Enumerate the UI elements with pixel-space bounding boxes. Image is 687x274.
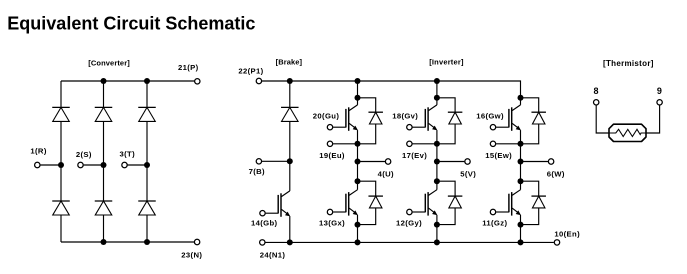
svg-text:15(Ew): 15(Ew) [485,151,512,160]
svg-text:24(N1): 24(N1) [260,251,286,260]
diode D6 (lower arm, phase T) [138,201,156,215]
wire gate lead 12(Gy) [413,211,426,213]
wire terminal stub 3(T) [128,164,147,166]
terminal 12(Gy) circle [407,209,412,214]
junction lower collector node leg V [434,178,440,184]
label [Brake] [276,58,303,67]
wire emitter leg V upper [436,130,438,144]
junction lower collector node leg W [518,178,524,184]
wire gate lead 20(Gu) [333,126,346,128]
wire freewheel diode branch bottom leg U [358,181,376,224]
junction node B [287,158,293,164]
wire phase node drop leg W [520,144,522,181]
svg-text:14(Gb): 14(Gb) [251,218,278,227]
svg-text:1(R): 1(R) [30,147,46,156]
transistor Q20 IGBT (upper U) [346,105,358,131]
wire gate lead 11(Gz) [496,211,509,213]
diode D2 (upper arm, phase S) [95,107,113,121]
wire converter leg 2 [103,81,105,242]
label [Inverter] [429,58,464,67]
svg-text:[Brake]: [Brake] [276,58,303,67]
diode DW1 (freewheel, upper W) [531,112,546,124]
junction input node S [101,162,107,168]
label [Thermistor] [603,59,654,68]
svg-text:[Thermistor]: [Thermistor] [603,59,654,68]
wire output stub 6(W) [521,161,549,163]
label 15(Ew) [485,151,512,160]
svg-text:9: 9 [657,86,662,96]
wire freewheel diode branch bottom leg V [437,181,455,224]
label 23(N) [181,250,202,259]
junction output node U [355,159,361,165]
label 21(P) [178,63,199,72]
svg-text:13(Gx): 13(Gx) [319,219,345,228]
transistor Q11 IGBT (lower W) [509,190,521,216]
terminal 18(Gv) circle [407,125,412,130]
junction emitter node leg W [518,141,524,147]
transistor Q7 IGBT (brake chopper) [278,191,290,217]
wire freewheel diode branch top leg V [437,98,455,144]
wire converter leg 1 [60,81,62,242]
label 14(Gb) [251,218,278,227]
junction emitter node leg U [355,141,361,147]
wire collector leg W upper [520,98,522,105]
diode D4 (lower arm, phase R) [52,201,70,215]
label [Converter] [88,58,130,67]
svg-text:[Inverter]: [Inverter] [429,58,464,67]
wire brake upper branch [289,81,291,161]
wire output stub 5(V) [437,161,465,163]
junction converter top rail leg3 [144,78,150,84]
terminal 21(P) circle [195,79,200,84]
diode DV1 (freewheel, upper V) [448,112,463,124]
transistor Q16 IGBT (upper W) [509,105,521,131]
transistor Q18 IGBT (upper V) [425,105,437,131]
terminal 17(Ev) circle [407,141,412,146]
svg-text:4(U): 4(U) [378,169,394,178]
wire collector leg V upper [436,98,438,105]
wire aux emitter stub 15(Ew) [496,143,520,145]
label 17(Ev) [402,151,427,160]
transistor Q13 IGBT (lower U) [346,190,358,216]
junction output node W [518,159,524,165]
wire output stub 4(U) [358,161,386,163]
wire rail drop leg V [436,81,438,98]
diode DV2 (freewheel, lower V) [448,196,463,208]
wire gate lead 16(Gw) [496,126,509,128]
svg-text:2(S): 2(S) [76,150,92,159]
junction lower emitter node leg V [434,222,440,228]
wire aux emitter stub 17(Ev) [413,143,437,145]
wire freewheel diode branch top leg W [521,98,539,144]
junction input node T [144,162,150,168]
svg-text:21(P): 21(P) [178,63,199,72]
terminal 23(N) circle [194,239,199,244]
label 13(Gx) [319,219,345,228]
wire collector leg W lower [520,181,522,190]
terminal 11(Gz) circle [490,209,495,214]
wire freewheel diode branch top leg U [358,98,376,144]
wire brake collector [289,161,291,191]
svg-text:6(W): 6(W) [547,169,565,178]
terminal 3(T) circle [122,162,127,167]
diode DU2 (freewheel, lower U) [368,196,383,208]
terminal 4(U) circle [385,159,390,164]
svg-text:Equivalent Circuit Schematic: Equivalent Circuit Schematic [7,14,255,34]
wire collector leg U lower [357,181,359,190]
svg-text:12(Gy): 12(Gy) [396,219,422,228]
svg-text:23(N): 23(N) [181,250,202,259]
wire thermistor lead 9 [646,105,660,133]
label 9 [657,86,662,96]
junction brake emitter node [287,239,293,245]
diode D5 (lower arm, phase S) [95,201,113,215]
terminal 8 circle [594,100,599,105]
junction top rail leg U [355,78,361,84]
wire collector leg V lower [436,181,438,190]
label 22(P1) [238,67,263,76]
wire converter top rail [61,80,194,82]
wire leg W to N rail [520,225,522,243]
label 16(Gw) [476,111,504,120]
diode D7 (brake) [281,107,299,121]
svg-text:11(Gz): 11(Gz) [482,219,507,228]
wire aux emitter stub 19(Eu) [333,143,357,145]
wire thermistor lead 8 [596,105,609,133]
junction converter top rail leg2 [101,78,107,84]
terminal 2(S) circle [78,162,83,167]
label 10(En) [554,230,580,239]
wire converter bottom rail [61,241,194,243]
wire leg V to N rail [436,225,438,243]
svg-text:8: 8 [594,86,599,96]
junction converter bottom rail leg2 [101,239,107,245]
wire emitter leg U lower [357,215,359,225]
svg-text:10(En): 10(En) [554,230,580,239]
terminal 14(Gb) circle [260,211,265,216]
wire emitter leg W upper [520,130,522,144]
wire emitter leg W lower [520,215,522,225]
label 19(Eu) [319,151,345,160]
junction collector node leg U [355,95,361,101]
label 4(U) [378,169,394,178]
wire converter leg 3 [146,81,148,242]
svg-text:20(Gu): 20(Gu) [313,111,340,120]
wire phase node drop leg V [436,144,438,181]
wire collector leg U upper [357,98,359,105]
label 3(T) [120,150,136,159]
wire brake gate lead [266,212,279,214]
thermistor RT body box (beveled) [609,124,646,141]
label 11(Gz) [482,219,507,228]
diode DU1 (freewheel, upper U) [368,112,383,124]
wire freewheel diode branch bottom leg W [521,181,539,224]
wire 7(B) stub [262,160,290,162]
label 24(N1) [260,251,286,260]
wire inverter bottom rail [265,241,554,243]
junction bottom rail leg U [355,239,361,245]
label 12(Gy) [396,219,422,228]
wire gate lead 13(Gx) [333,211,346,213]
diode D3 (upper arm, phase T) [138,107,156,121]
junction output node V [434,159,440,165]
terminal 19(Eu) circle [327,141,332,146]
terminal 13(Gx) circle [327,209,332,214]
label 1(R) [30,147,46,156]
terminal 20(Gu) circle [327,125,332,130]
wire brake emitter [289,216,291,242]
label 8 [594,86,599,96]
wire emitter leg V lower [436,215,438,225]
terminal 7(B) circle [256,159,261,164]
junction brake top node [287,78,293,84]
junction lower emitter node leg U [355,222,361,228]
wire emitter leg U upper [357,130,359,144]
junction top rail leg V [434,78,440,84]
terminal 6(W) circle [548,159,553,164]
diode D1 (upper arm, phase R) [52,107,70,121]
label 20(Gu) [313,111,340,120]
svg-text:17(Ev): 17(Ev) [402,151,427,160]
svg-text:16(Gw): 16(Gw) [476,111,504,120]
label 18(Gv) [392,111,418,120]
label 6(W) [547,169,565,178]
svg-text:3(T): 3(T) [120,150,136,159]
svg-text:[Converter]: [Converter] [88,58,130,67]
terminal 24(N1) circle [260,240,265,245]
junction collector node leg V [434,95,440,101]
svg-text:22(P1): 22(P1) [238,67,263,76]
junction lower collector node leg U [355,178,361,184]
diode DW2 (freewheel, lower W) [531,196,546,208]
transistor Q12 IGBT (lower V) [425,190,437,216]
terminal 1(R) circle [35,162,40,167]
svg-text:18(Gv): 18(Gv) [392,111,418,120]
wire rail drop leg U [357,81,359,98]
junction collector node leg W [518,95,524,101]
svg-text:19(Eu): 19(Eu) [319,151,345,160]
svg-text:5(V): 5(V) [460,169,476,178]
terminal 10(En) circle [554,240,559,245]
svg-text:7(B): 7(B) [249,167,265,176]
wire terminal stub 1(R) [40,164,61,166]
terminal 22(P1) circle [256,78,261,83]
label 5(V) [460,169,476,178]
junction bottom rail leg W [518,239,524,245]
terminal 16(Gw) circle [490,125,495,130]
terminal 5(V) circle [465,159,470,164]
junction input node R [58,162,64,168]
wire leg U to N rail [357,225,359,243]
wire gate lead 18(Gv) [413,126,426,128]
junction emitter node leg V [434,141,440,147]
junction converter bottom rail leg3 [144,239,150,245]
label 7(B) [249,167,265,176]
wire P1 top rail (22P1 to inverter corner) [262,81,521,98]
terminal 9 circle [657,100,662,105]
resistor RT zigzag element [609,129,646,136]
label 2(S) [76,150,92,159]
junction bottom rail leg V [434,239,440,245]
wire phase node drop leg U [357,144,359,181]
wire terminal stub 2(S) [84,164,104,166]
title text [7,14,255,34]
junction lower emitter node leg W [518,222,524,228]
terminal 15(Ew) circle [490,141,495,146]
